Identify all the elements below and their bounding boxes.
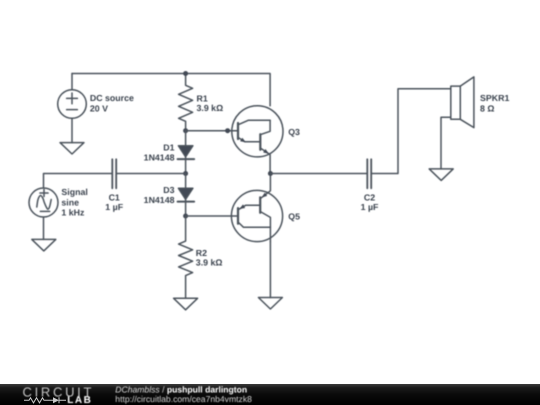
svg-text:D3: D3 bbox=[163, 185, 174, 195]
svg-text:3.9 kΩ: 3.9 kΩ bbox=[196, 258, 223, 268]
wire Q3 base bbox=[186, 130, 238, 132]
svg-text:C2: C2 bbox=[364, 192, 375, 202]
svg-text:1 kHz: 1 kHz bbox=[61, 208, 85, 218]
resistor R2 bbox=[179, 216, 193, 298]
ground under speaker bbox=[429, 169, 453, 181]
svg-text:Q3: Q3 bbox=[288, 127, 300, 137]
svg-text:DChamblss / pushpull darlingto: DChamblss / pushpull darlington bbox=[115, 385, 247, 395]
svg-text:3.9 kΩ: 3.9 kΩ bbox=[197, 103, 224, 113]
wire output to C2 bbox=[270, 173, 367, 175]
svg-text:Q5: Q5 bbox=[288, 212, 300, 222]
svg-text:http://circuitlab.com/cea7nb4v: http://circuitlab.com/cea7nb4vmtzk8 bbox=[115, 394, 252, 404]
speaker SPKR1 bbox=[441, 77, 474, 169]
capacitor C2 bbox=[367, 89, 451, 189]
transistor Q3 darlington NPN bbox=[232, 106, 283, 174]
node output bbox=[268, 171, 273, 176]
node diode midpoint bbox=[183, 171, 188, 176]
wire top rail bbox=[72, 74, 270, 106]
svg-text:1 µF: 1 µF bbox=[361, 202, 379, 212]
wire DC source top lead bbox=[71, 74, 73, 90]
ground under R2 bbox=[174, 298, 198, 310]
diode D1 1N4148 bbox=[178, 131, 195, 174]
diode D3 1N4148 bbox=[178, 174, 195, 217]
wire Q5 base bbox=[186, 215, 238, 217]
logo squiggle wire resistor diode bbox=[24, 397, 66, 403]
svg-text:R2: R2 bbox=[196, 248, 207, 258]
ground under Q5 bbox=[258, 298, 282, 310]
wire DC source bottom lead bbox=[71, 118, 73, 142]
svg-text:sine: sine bbox=[61, 197, 79, 207]
transistor Q5 darlington PNP bbox=[231, 174, 282, 242]
wire Q5 collector to ground bbox=[269, 242, 271, 298]
svg-text:R1: R1 bbox=[197, 93, 208, 103]
svg-text:8 Ω: 8 Ω bbox=[480, 103, 494, 113]
capacitor C1 bbox=[112, 159, 185, 188]
ground under signal source bbox=[32, 239, 56, 251]
footer bar bbox=[0, 384, 540, 405]
svg-text:DC source: DC source bbox=[90, 93, 134, 103]
ground under DC source bbox=[60, 143, 84, 154]
node R1/D1 bbox=[183, 128, 188, 133]
wire signal source top lead bbox=[44, 174, 113, 189]
svg-text:LAB: LAB bbox=[67, 395, 92, 405]
voltage source V2 signal sine bbox=[29, 188, 58, 217]
svg-text:1N4148: 1N4148 bbox=[144, 195, 175, 205]
svg-text:1N4148: 1N4148 bbox=[144, 153, 175, 163]
wire signal source bottom lead bbox=[43, 217, 45, 239]
voltage source V1 DC source bbox=[58, 90, 87, 119]
svg-text:20 V: 20 V bbox=[90, 103, 108, 113]
node D3/R2 bbox=[183, 214, 188, 219]
svg-text:SPKR1: SPKR1 bbox=[480, 93, 509, 103]
node Q3 base wire bbox=[225, 128, 230, 133]
svg-text:Signal: Signal bbox=[61, 187, 87, 197]
resistor R1 bbox=[179, 74, 193, 131]
svg-text:D1: D1 bbox=[163, 143, 174, 153]
svg-text:1 µF: 1 µF bbox=[105, 202, 123, 212]
node at rail/R1 bbox=[183, 71, 188, 76]
svg-text:C1: C1 bbox=[109, 192, 120, 202]
